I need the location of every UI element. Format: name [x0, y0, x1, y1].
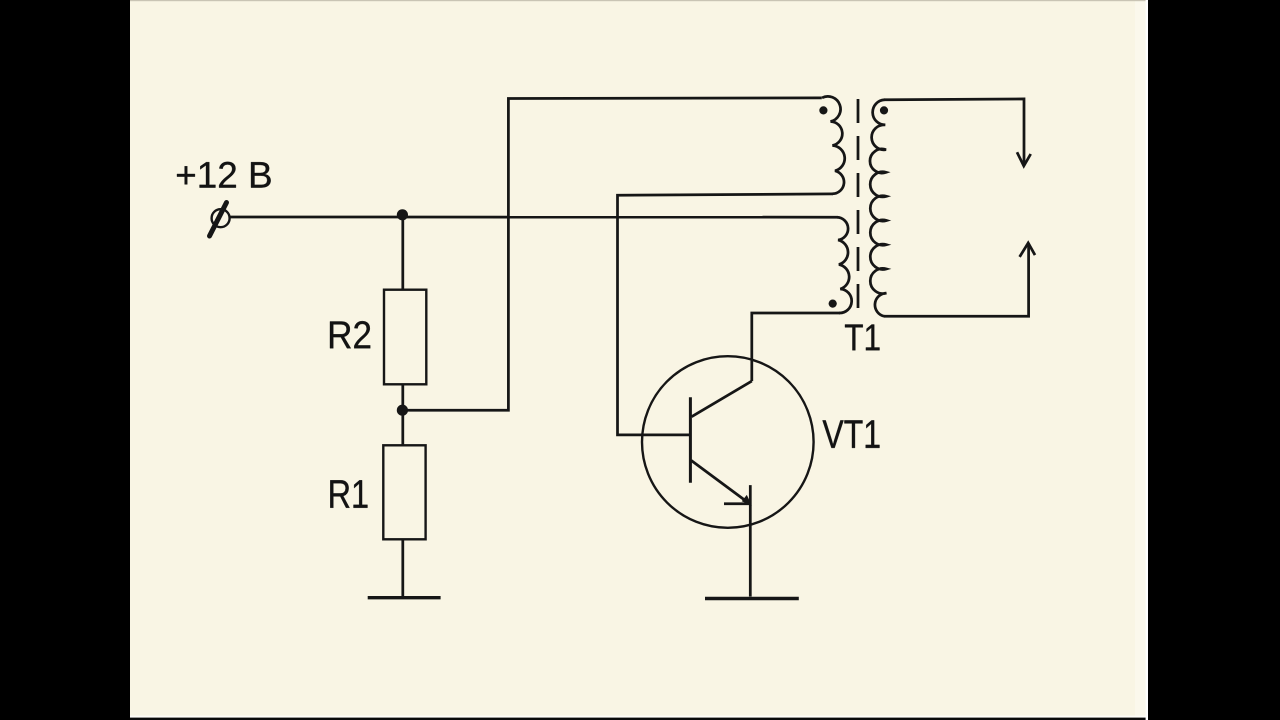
transistor VT1 circle [642, 356, 814, 528]
transformer T1 winding II (bottom primary) [837, 217, 852, 313]
bottom white hairline [128, 716, 1148, 718]
wire node A to R2 [401, 215, 404, 290]
transformer T1 core (dashed) [857, 99, 860, 318]
ground (below R1) [368, 596, 441, 599]
wire feedback: node B right, up, to winding I top [403, 98, 822, 410]
wire node B to R1 [401, 410, 404, 445]
node A junction dot [397, 209, 408, 220]
emitter arrowhead barb vertical + wire emitter to ground [749, 485, 752, 596]
top hairline [130, 0, 1148, 1]
label T1 [845, 324, 880, 350]
label +12 V supply [177, 162, 271, 188]
wire secondary top output [884, 99, 1024, 166]
arrowhead down (top output) [1017, 152, 1031, 166]
phasing dot winding II [829, 300, 837, 308]
phasing dot winding III [880, 106, 888, 114]
label VT1 [823, 420, 880, 448]
right white hairline [1146, 0, 1148, 720]
wire winding I bottom to base [618, 194, 834, 435]
label R1 [330, 480, 367, 508]
wire collector to winding II bottom [752, 313, 840, 381]
left letterbox bar [0, 0, 130, 720]
bottom black strip [0, 718, 1280, 720]
wire R2 to node B [401, 384, 404, 411]
resistor R1 [383, 445, 425, 539]
emitter arrowhead barb horizontal [724, 502, 751, 505]
terminal +12V input [212, 209, 230, 227]
right letterbox bar [1148, 0, 1280, 720]
wire R1 to ground [401, 539, 404, 597]
transformer T1 winding I (top primary) [822, 96, 845, 193]
transistor VT1 emitter diagonal [691, 460, 750, 504]
emitter arrowhead fill [742, 495, 752, 506]
right pale band [1135, 0, 1146, 720]
ground (below VT1) [705, 597, 799, 600]
node B junction dot [397, 405, 408, 416]
phasing dot winding I [819, 106, 827, 114]
transistor VT1 base bar [689, 397, 692, 482]
transistor VT1 collector diagonal [692, 381, 752, 417]
wire main +12V rail [230, 216, 838, 219]
wire secondary bottom output [884, 243, 1029, 316]
resistor R2 [384, 290, 426, 385]
label R2 [330, 321, 370, 348]
arrowhead up (bottom output) [1020, 243, 1035, 257]
transformer T1 winding III (secondary) [870, 100, 886, 316]
